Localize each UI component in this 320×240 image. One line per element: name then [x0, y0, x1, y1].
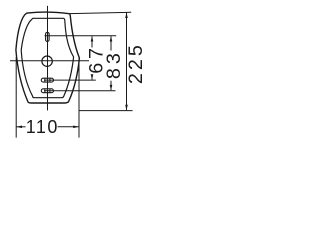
left extension line for 110	[15, 57, 17, 138]
top edge extension line to 225 dimension	[70, 12, 132, 13]
inner body line	[21, 18, 73, 97]
extension line from capsule row 2	[44, 90, 116, 92]
dimension line 225	[126, 13, 128, 111]
arrowhead 67 down	[91, 74, 94, 80]
arrowhead 83 down	[110, 85, 113, 91]
capsule row 1 inner ticks	[44, 78, 46, 82]
dimension line 83	[110, 36, 112, 50]
dimension line 67	[91, 36, 93, 47]
110 dimension line right part	[58, 126, 80, 128]
right extension line for 110	[78, 58, 80, 138]
top capsule (mounting slot)	[46, 32, 50, 41]
svg-text:225: 225	[125, 42, 147, 84]
bottom extension line for 225	[79, 110, 133, 112]
svg-text:110: 110	[26, 117, 59, 137]
arrowhead 83 up	[110, 36, 113, 42]
arrowhead 225 up	[125, 12, 128, 18]
arrowhead 225 down	[125, 105, 128, 111]
110 dimension line left part	[16, 126, 25, 128]
outer body outline	[16, 12, 80, 103]
arrowhead 110 left	[16, 126, 22, 129]
extension line from top capsule (67/83 datum)	[45, 35, 117, 37]
horizontal centerline through circle	[10, 60, 89, 62]
svg-text:83: 83	[103, 49, 125, 79]
circle (knockout hole)	[42, 56, 52, 66]
capsule row 1	[41, 78, 53, 82]
capsule row 2 inner ticks	[44, 89, 46, 93]
extension line from capsule row 1	[44, 79, 96, 81]
arrowhead 67 up	[91, 36, 94, 42]
capsule row 2	[41, 89, 53, 93]
vertical centerline	[47, 6, 49, 111]
arrowhead 110 right	[73, 126, 79, 129]
